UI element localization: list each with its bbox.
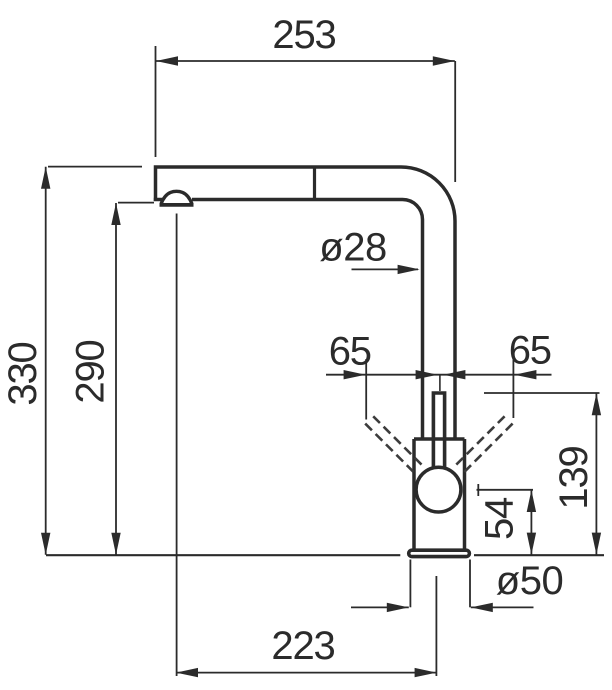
faucet centre line	[439, 375, 441, 391]
dashed pull-out hose left, lower line	[365, 424, 417, 476]
svg-text:330: 330	[1, 342, 45, 405]
arrow 65 centre left	[416, 370, 438, 379]
arrow 54 down	[527, 533, 536, 555]
svg-text:290: 290	[69, 340, 113, 403]
aerator base	[160, 203, 194, 207]
leader line o28	[352, 268, 419, 270]
aerator dome	[161, 191, 192, 204]
arrow 223 left	[176, 668, 198, 677]
svg-text:65: 65	[509, 329, 551, 373]
dashed pull-out hose right, upper line	[453, 416, 504, 467]
arrow 65 centre right	[443, 370, 465, 379]
leader line o50 right	[471, 606, 534, 608]
dimension line 54	[530, 490, 532, 555]
extension line left for 223	[176, 214, 178, 677]
dimension line 65-65	[326, 374, 552, 376]
lever handle	[433, 393, 444, 470]
extension line left for o50	[409, 560, 411, 608]
arrow 65 left outer	[344, 370, 366, 379]
arrow 253 right	[433, 56, 455, 65]
dimension line 290	[115, 203, 117, 555]
tick at ball centre	[477, 484, 479, 496]
dashed pull-out hose right, lower line	[461, 424, 513, 476]
extension line right for 253	[454, 61, 456, 182]
spray head joint	[313, 167, 316, 200]
svg-text:54: 54	[478, 497, 522, 540]
svg-text:223: 223	[271, 624, 334, 668]
dimension line 253	[156, 60, 455, 62]
spray head bottom stub	[154, 198, 163, 202]
dimension line 223	[176, 672, 437, 674]
base plate	[409, 550, 470, 556]
extension line top for 330	[48, 166, 142, 168]
body left edge	[412, 439, 416, 551]
leader line o50 left	[351, 606, 409, 608]
extension line right hose end	[512, 359, 514, 418]
svg-text:253: 253	[272, 13, 335, 57]
body shoulder	[414, 437, 465, 441]
extension line top for 139	[484, 392, 600, 394]
extension line left for 253	[155, 46, 157, 157]
arrow 54 up	[527, 490, 536, 512]
arrow o50 right	[471, 603, 493, 612]
dimension line 330	[45, 167, 47, 555]
spout outer outline (top of L-pipe)	[156, 167, 456, 440]
arrow 290 down	[111, 533, 120, 555]
ball joint circle	[416, 467, 461, 512]
extension line right for 223 (centre line)	[435, 576, 437, 676]
arrow 223 right	[415, 668, 437, 677]
svg-text:65: 65	[329, 329, 371, 373]
arrow o50 left	[387, 603, 409, 612]
arrow 139 up	[592, 393, 601, 415]
spout inner outline (bottom of L-pipe)	[192, 200, 423, 441]
arrow 65 right outer	[514, 370, 536, 379]
arrow o28	[398, 265, 420, 274]
arrow 290 up	[111, 203, 120, 225]
dashed pull-out hose left, upper line	[373, 416, 424, 467]
svg-text:139: 139	[552, 446, 596, 509]
svg-text:ø28: ø28	[319, 225, 386, 269]
arrow 330 up	[41, 167, 50, 189]
arrow 253 left	[156, 56, 178, 65]
svg-text:ø50: ø50	[496, 559, 563, 603]
dimension line 139	[595, 393, 597, 554]
deck reference line right	[474, 554, 604, 556]
deck reference line left	[46, 554, 400, 556]
extension line left hose end	[365, 359, 367, 420]
arrow 139 down	[592, 533, 601, 555]
body right edge	[463, 439, 467, 551]
extension line right for o50	[469, 560, 471, 608]
extension line top for 54	[477, 489, 534, 491]
extension line for 290	[118, 202, 154, 204]
arrow 330 down	[41, 533, 50, 555]
